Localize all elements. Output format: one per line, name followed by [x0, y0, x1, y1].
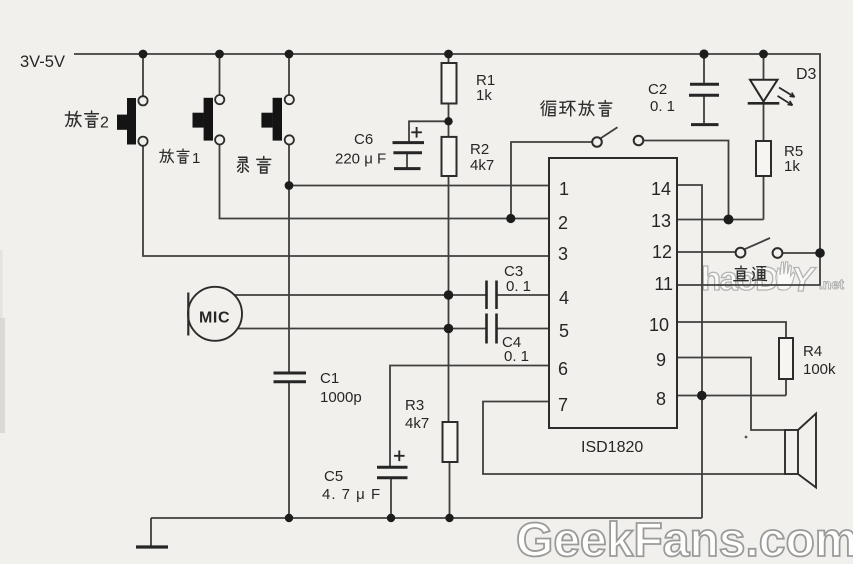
svg-text:12: 12 — [652, 242, 672, 262]
svg-text:11: 11 — [654, 274, 673, 294]
svg-text:C6: C6 — [354, 131, 373, 148]
svg-text:GeekFans.com: GeekFans.com — [516, 514, 853, 564]
svg-text:0. 1: 0. 1 — [504, 348, 529, 365]
svg-text:6: 6 — [558, 359, 568, 379]
svg-text:14: 14 — [651, 179, 671, 199]
svg-text:1k: 1k — [476, 87, 492, 104]
svg-text:7: 7 — [558, 395, 568, 415]
svg-text:3: 3 — [558, 244, 568, 264]
svg-text:2: 2 — [100, 115, 109, 132]
svg-text:5: 5 — [559, 321, 569, 341]
svg-text:8: 8 — [656, 389, 666, 409]
svg-text:10: 10 — [649, 315, 669, 335]
svg-text:0. 1: 0. 1 — [506, 278, 531, 295]
svg-text:3V-5V: 3V-5V — [20, 53, 65, 71]
svg-text:100k: 100k — [803, 361, 836, 378]
svg-text:D3: D3 — [796, 66, 817, 83]
svg-text:4: 4 — [559, 288, 569, 308]
svg-text:ISD1820: ISD1820 — [581, 439, 643, 456]
svg-text:1000p: 1000p — [320, 389, 362, 406]
svg-text:4k7: 4k7 — [405, 415, 429, 432]
svg-text:220 μ F: 220 μ F — [335, 151, 386, 168]
svg-text:C2: C2 — [648, 81, 667, 98]
svg-text:.net: .net — [819, 276, 844, 292]
svg-text:9: 9 — [656, 350, 666, 370]
svg-text:R2: R2 — [470, 141, 489, 158]
svg-text:C1: C1 — [320, 370, 339, 387]
svg-text:Y: Y — [791, 261, 817, 299]
svg-text:C5: C5 — [324, 468, 343, 485]
svg-text:2: 2 — [558, 213, 568, 233]
svg-text:4k7: 4k7 — [470, 157, 494, 174]
svg-text:1k: 1k — [784, 158, 800, 175]
svg-text:1: 1 — [559, 179, 569, 199]
svg-text:R3: R3 — [405, 397, 424, 414]
svg-text:4. 7 μ F: 4. 7 μ F — [322, 486, 381, 503]
svg-text:MIC: MIC — [199, 310, 230, 327]
svg-text:0. 1: 0. 1 — [650, 98, 675, 115]
svg-text:13: 13 — [651, 211, 671, 231]
svg-text:1: 1 — [192, 150, 200, 167]
svg-text:R4: R4 — [803, 343, 822, 360]
